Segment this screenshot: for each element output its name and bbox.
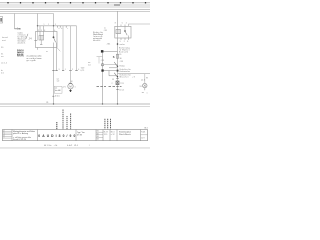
connector dash row mid bbox=[97, 85, 107, 87]
relay coil bottom pin bbox=[40, 40, 42, 45]
legend text block F bbox=[18, 32, 27, 44]
revision table verticals bbox=[11, 130, 13, 141]
pin stub 66 bbox=[65, 26, 67, 28]
inline component cross2 bbox=[116, 81, 119, 85]
relay actuator diagonal bbox=[57, 48, 60, 52]
svg-text:S5: S5 bbox=[119, 54, 121, 56]
svg-text:T2/1: T2/1 bbox=[120, 83, 124, 85]
junction dot A bbox=[37, 25, 38, 26]
relay2 coil bbox=[116, 30, 121, 34]
svg-text:c 3: c 3 bbox=[3, 133, 5, 135]
relay left side pin bbox=[34, 40, 37, 42]
switch S1 blade bbox=[114, 62, 117, 67]
svg-text:4: 4 bbox=[78, 69, 79, 71]
junction dot x117 y44 bbox=[117, 43, 119, 45]
power rail X bbox=[0, 8, 150, 10]
svg-text:53: 53 bbox=[112, 79, 114, 81]
ruler tick marks with track numbers bbox=[8, 2, 146, 4]
title block outer frame bbox=[3, 130, 148, 141]
svg-text:Wascher: Wascher bbox=[120, 77, 129, 79]
margin terminal box bbox=[0, 17, 3, 24]
grid row text bbox=[97, 131, 99, 141]
svg-text:W: W bbox=[146, 78, 148, 80]
svg-text:M: M bbox=[69, 84, 71, 88]
relay2 pin stub 121 bbox=[120, 25, 122, 27]
svg-text:wischer h.: wischer h. bbox=[18, 42, 27, 44]
svg-text:1,0: 1,0 bbox=[88, 64, 91, 66]
relay J4 box bbox=[36, 32, 58, 48]
title cell divider2 bbox=[75, 130, 77, 141]
connector name labels right bbox=[81, 68, 85, 72]
vertical reference text column x57 bbox=[56, 122, 58, 129]
power rail 15 bbox=[0, 6, 150, 8]
svg-text:e 5: e 5 bbox=[3, 137, 5, 139]
pin labels on y26 wire bbox=[44, 24, 69, 30]
relay2 coil windings bbox=[117, 30, 119, 34]
drop wire x76 bbox=[76, 26, 78, 71]
relay2 contact blade bbox=[125, 31, 127, 35]
svg-text:a 1: a 1 bbox=[3, 130, 5, 132]
boxed wire label near x53 bbox=[54, 86, 62, 93]
relay contact common bbox=[53, 32, 55, 38]
relay J31 box bbox=[115, 26, 131, 38]
svg-text:2: 2 bbox=[112, 83, 113, 85]
revision row text bbox=[3, 130, 5, 139]
relay contact out pin bbox=[53, 43, 55, 48]
svg-text:3: 3 bbox=[59, 69, 60, 71]
switch S2 contact dot bbox=[117, 76, 118, 77]
switch S2 blade bbox=[114, 73, 117, 77]
pin stub 60 bbox=[59, 26, 61, 28]
connector pin labels bbox=[59, 69, 80, 71]
svg-text:1: 1 bbox=[147, 93, 148, 95]
svg-text:br 0,5: br 0,5 bbox=[120, 90, 125, 92]
svg-text:1: 1 bbox=[75, 86, 76, 88]
svg-text:2: 2 bbox=[38, 30, 39, 32]
page number cells bbox=[141, 132, 145, 140]
svg-text:J 59: J 59 bbox=[120, 61, 124, 63]
svg-text:kessel: kessel bbox=[2, 37, 8, 39]
switch S1 contact dot bbox=[117, 66, 118, 67]
svg-text:44 1 / 4a: 44 1 / 4a bbox=[44, 145, 52, 147]
page cell rows bbox=[141, 134, 148, 136]
relay2 coil bottom pin bbox=[117, 34, 119, 38]
relay bottom-right pin bbox=[56, 43, 58, 48]
power rail 30 bbox=[0, 4, 150, 6]
svg-text:N 4/1: N 4/1 bbox=[141, 132, 145, 134]
relay pin 2 drop bbox=[39, 26, 41, 36]
relay bottom-left stub bbox=[37, 48, 39, 50]
svg-text:2: 2 bbox=[124, 41, 125, 43]
svg-text:4 4c/2: 4 4c/2 bbox=[67, 145, 72, 147]
note cell line2 bbox=[13, 136, 31, 141]
switch S2 feed branch bbox=[109, 71, 118, 76]
text block O bbox=[119, 46, 130, 53]
connector row X ticks mid-left bbox=[52, 70, 77, 72]
svg-text:2: 2 bbox=[72, 69, 73, 71]
dense note block G bbox=[17, 50, 24, 57]
ground rail 31 lower B bbox=[0, 106, 150, 108]
svg-text:3: 3 bbox=[55, 24, 56, 26]
svg-text:6: 6 bbox=[54, 30, 55, 32]
vertical reference text column x63 bbox=[62, 110, 64, 130]
grid column divider bbox=[95, 130, 97, 141]
svg-text:S: S bbox=[113, 55, 115, 59]
relay2 contact dot bbox=[124, 30, 126, 32]
svg-text:br 0,5: br 0,5 bbox=[55, 96, 60, 98]
pump inner stroke1 bbox=[143, 84, 146, 87]
label J30 bbox=[120, 68, 132, 73]
lamp drop wire bbox=[144, 74, 146, 84]
grid divider2 bbox=[102, 130, 104, 141]
right branch wire y73 bbox=[118, 73, 151, 75]
relay2 contact out bbox=[128, 36, 130, 39]
junction square2 bbox=[101, 69, 103, 71]
pump inner stroke2 bbox=[143, 84, 146, 87]
wiper motor V bbox=[68, 84, 73, 89]
pump bottom stub bbox=[144, 88, 146, 90]
svg-text:a: a bbox=[59, 28, 60, 30]
pump tail tick bbox=[142, 92, 144, 94]
grid rows bbox=[96, 132, 103, 137]
svg-text:Stand 07.93 ZE: Stand 07.93 ZE bbox=[13, 138, 27, 141]
svg-text:Relais: Relais bbox=[120, 66, 125, 68]
stub vertical x99 bbox=[98, 57, 100, 64]
svg-text:12.9: 12.9 bbox=[104, 134, 108, 136]
wire from relay contact down bbox=[53, 48, 55, 105]
tick y89 bbox=[116, 89, 118, 91]
relay pin 3 drop bbox=[43, 26, 45, 36]
wire note W bbox=[57, 79, 60, 83]
boxed label text bbox=[55, 87, 60, 92]
margin terminal glyph bbox=[0, 18, 1, 22]
vertical reference column x104 bbox=[104, 119, 106, 129]
relay coil K bbox=[39, 36, 44, 41]
revision rows bbox=[3, 131, 13, 138]
branch vertical x102 bbox=[102, 53, 104, 104]
svg-text:8: 8 bbox=[44, 30, 45, 32]
svg-text:1: 1 bbox=[65, 69, 66, 71]
svg-text:Heckwischer: Heckwischer bbox=[120, 71, 131, 73]
pump symbol circle on x102 bbox=[101, 63, 103, 65]
relay2 coil internal pin bbox=[117, 26, 119, 29]
sheet title text bbox=[119, 130, 131, 136]
svg-text:12 9: 12 9 bbox=[141, 137, 144, 139]
branch wire y70 bbox=[103, 70, 118, 72]
svg-text:bw: bw bbox=[17, 28, 20, 31]
switch S2 labels bbox=[120, 74, 132, 79]
inline component on x117 bbox=[116, 81, 119, 85]
svg-text:ws/sw: ws/sw bbox=[120, 44, 126, 46]
svg-text:ge = gelb: ge = gelb bbox=[27, 60, 36, 62]
relay2 pin stub 125 bbox=[124, 25, 126, 27]
relay contact blade bbox=[54, 38, 56, 43]
text T left of wires bbox=[88, 62, 91, 66]
svg-text:30: 30 bbox=[120, 58, 122, 60]
svg-text:Wisch-Wasch: Wisch-Wasch bbox=[119, 134, 131, 136]
svg-text:5: 5 bbox=[41, 30, 42, 32]
text block K (relay2 description) bbox=[93, 31, 103, 42]
vertical reference text column x70 bbox=[70, 114, 72, 130]
drop wire x63 bbox=[62, 26, 64, 71]
svg-text:HINTN: HINTN bbox=[17, 56, 24, 58]
svg-text:B4: B4 bbox=[97, 139, 99, 141]
rail junction x102 bbox=[102, 103, 103, 104]
main vertical wire x117 top bbox=[117, 11, 119, 26]
junction square bbox=[101, 50, 104, 53]
relay contact point bbox=[53, 36, 55, 38]
svg-text:J 31: J 31 bbox=[104, 30, 108, 32]
svg-text:B3: B3 bbox=[97, 136, 99, 138]
divider x117 bbox=[116, 130, 118, 141]
svg-text:Heckkl.: Heckkl. bbox=[93, 40, 101, 42]
relay2 bottom stub 125 bbox=[124, 38, 126, 40]
relay2 bottom pin labels bbox=[120, 41, 129, 43]
relay coil bottom bar bbox=[40, 44, 42, 46]
svg-text:ro: ro bbox=[104, 26, 106, 29]
rail junction x53 bbox=[53, 103, 54, 104]
svg-text:V5: V5 bbox=[140, 86, 142, 88]
svg-text:Stromlaufplan: Stromlaufplan bbox=[119, 130, 131, 133]
type cell text bbox=[77, 132, 85, 137]
svg-text:Typ / Var: Typ / Var bbox=[77, 132, 85, 134]
svg-text:Konsole: Konsole bbox=[119, 52, 128, 54]
wire from left margin at 13.5 bbox=[0, 13, 54, 15]
vertical reference column x107 bbox=[107, 119, 109, 129]
main vertical x117 middle bbox=[117, 38, 119, 104]
motor junction top bbox=[69, 82, 72, 84]
junction y70 bbox=[117, 70, 119, 72]
note cell divider bbox=[37, 130, 39, 141]
svg-text:bis rad: bis rad bbox=[55, 90, 60, 92]
svg-text:8: 8 bbox=[115, 23, 116, 25]
tick y78 bbox=[116, 78, 118, 80]
wire from relay right pin down bbox=[56, 48, 58, 71]
ground rail 31 lower A bbox=[0, 103, 150, 105]
relay2 contact common bbox=[124, 26, 126, 30]
svg-text:0,75: 0,75 bbox=[81, 70, 85, 72]
power rail 31 bbox=[0, 10, 150, 12]
washer pump motor M2 bbox=[143, 83, 147, 87]
fuse S on main wire bbox=[116, 54, 118, 58]
svg-text:Bl. 4: Bl. 4 bbox=[111, 131, 115, 133]
relay pin numbers top bbox=[38, 30, 55, 32]
footer text row bbox=[44, 145, 72, 147]
svg-text:d 4: d 4 bbox=[3, 135, 5, 137]
cell text x110 bbox=[111, 131, 115, 136]
svg-text:. 4 b: . 4 b bbox=[54, 145, 58, 147]
component text block left margin rows bbox=[1, 37, 8, 74]
pin stub 57 bbox=[57, 26, 59, 28]
svg-text:2: 2 bbox=[48, 24, 49, 26]
divider x140 bbox=[140, 130, 142, 141]
note cell text bbox=[13, 130, 35, 135]
relay2 feed wire to right margin bbox=[129, 24, 151, 26]
svg-text:v. 12: v. 12 bbox=[111, 134, 115, 136]
svg-text:ws 1: ws 1 bbox=[141, 80, 145, 82]
svg-text:1,0: 1,0 bbox=[57, 81, 60, 83]
bridge wire y64 bbox=[104, 64, 118, 66]
svg-text:platz ZE s. Anhang: platz ZE s. Anhang bbox=[13, 132, 28, 135]
terminal bar at stub end bbox=[15, 28, 18, 30]
wire stub T14 bbox=[14, 14, 16, 29]
svg-text:5: 5 bbox=[120, 41, 121, 43]
drop wire x70 bbox=[70, 26, 72, 84]
relay2 bottom stub 121 bbox=[120, 38, 122, 40]
svg-text:31: 31 bbox=[46, 102, 48, 104]
relay2 bottom stub 128 bbox=[128, 38, 130, 40]
connector dash row right bbox=[109, 85, 122, 87]
wire drop to relay contact bbox=[53, 14, 55, 32]
junction tick x53 bbox=[52, 95, 54, 97]
svg-text:b: b bbox=[61, 28, 62, 30]
wire drop to relay coil bbox=[37, 14, 39, 32]
junction dot B bbox=[53, 25, 54, 26]
svg-text:07.93: 07.93 bbox=[77, 135, 82, 137]
svg-text:2: 2 bbox=[126, 23, 127, 25]
rail 30 junction bar bbox=[114, 4, 120, 6]
motor ground arrow bbox=[70, 89, 72, 92]
svg-text:mot.: mot. bbox=[2, 39, 6, 42]
svg-text:B2: B2 bbox=[97, 133, 99, 135]
branch wire y51 bbox=[103, 51, 118, 53]
distribution wire y26 bbox=[38, 25, 77, 27]
stub wire y56 bbox=[97, 56, 103, 58]
vertical reference text column x67 bbox=[66, 116, 68, 129]
bottom margin line bbox=[0, 147, 150, 149]
svg-text:W 4.: W 4. bbox=[74, 145, 78, 147]
svg-text:ws: ws bbox=[1, 56, 4, 58]
svg-text:Bl 4: Bl 4 bbox=[145, 128, 148, 130]
small cell text bbox=[104, 131, 108, 136]
relay internal wire to pin37 bbox=[37, 32, 39, 41]
legend block I bbox=[27, 56, 43, 62]
svg-text:b 2: b 2 bbox=[3, 132, 5, 134]
switch S1 fixed contact bar bbox=[109, 67, 118, 69]
svg-text:J 59: J 59 bbox=[101, 60, 105, 62]
divider x110 bbox=[109, 130, 111, 141]
svg-text:B1: B1 bbox=[97, 131, 99, 133]
svg-text:1: 1 bbox=[89, 145, 90, 147]
svg-text:5: 5 bbox=[122, 23, 123, 25]
track-number ruler line bbox=[0, 2, 150, 4]
vertical reference column x110 bbox=[110, 119, 112, 129]
svg-text:N 23: N 23 bbox=[104, 131, 108, 133]
relay coil windings bbox=[40, 36, 42, 41]
rail junction x117 bbox=[117, 103, 118, 104]
svg-text:sw 1,5: sw 1,5 bbox=[1, 63, 8, 65]
relay2 pin numbers bbox=[115, 23, 127, 25]
svg-text:8: 8 bbox=[127, 41, 128, 43]
inline component cross1 bbox=[116, 81, 119, 85]
